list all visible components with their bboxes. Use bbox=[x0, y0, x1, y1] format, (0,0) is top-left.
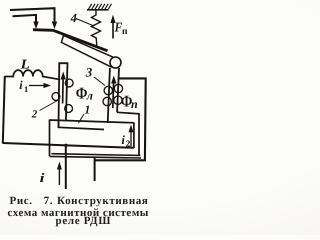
left limb of core bbox=[59, 63, 68, 127]
current arrow i bbox=[58, 168, 60, 185]
right limb exit wire bbox=[117, 112, 139, 156]
svg-text:i: i bbox=[40, 170, 45, 185]
svg-text:2: 2 bbox=[126, 138, 131, 148]
winding loop right limb c bbox=[103, 97, 111, 105]
yoke left end cap bbox=[58, 121, 60, 127]
middle long wire bbox=[3, 143, 134, 148]
svg-text:л: л bbox=[86, 89, 93, 103]
yoke top line / winding exit bbox=[50, 120, 135, 123]
winding exit left vertical bbox=[49, 120, 51, 157]
svg-text:1: 1 bbox=[84, 102, 90, 116]
current arrow i2 bbox=[130, 132, 132, 147]
junction dot rail-middle wire bbox=[64, 144, 67, 147]
label 2 leader bbox=[40, 101, 58, 111]
right limb of core bbox=[108, 68, 119, 123]
svg-text:1: 1 bbox=[24, 84, 28, 94]
pivot circle bbox=[110, 57, 121, 68]
armature bar bbox=[61, 36, 114, 67]
label 1 leader bbox=[79, 114, 85, 123]
svg-text:L: L bbox=[19, 56, 29, 71]
rail wire left bbox=[65, 145, 67, 190]
wire top feed 2 bbox=[13, 15, 37, 23]
spring anchor hatching bbox=[89, 4, 112, 9]
bottom band wire lower bbox=[50, 156, 142, 158]
flux arrow right limb bbox=[112, 82, 115, 108]
arrowhead on wire 1 bbox=[52, 22, 57, 30]
svg-text:3: 3 bbox=[85, 64, 93, 79]
coil L humps bbox=[5, 70, 59, 79]
caption line 2 bbox=[8, 207, 149, 219]
spring anchor bar bbox=[87, 9, 109, 11]
caption line 3 bbox=[56, 215, 112, 227]
winding loop left limb c bbox=[65, 105, 73, 113]
winding loop right limb a bbox=[104, 86, 112, 94]
arrowhead on wire 2 bbox=[33, 22, 38, 30]
svg-text:i: i bbox=[19, 78, 23, 92]
winding loop right limb d bbox=[114, 96, 122, 104]
winding loop right limb b bbox=[114, 84, 122, 92]
current arrow i1 bbox=[29, 85, 45, 87]
contact bar (thick) bbox=[33, 30, 108, 51]
i2 loop right vertical bbox=[133, 123, 135, 149]
winding loop left limb a bbox=[65, 79, 73, 87]
spring bbox=[92, 10, 101, 46]
rail wire right bbox=[94, 157, 96, 182]
wire top feed 1 bbox=[10, 8, 55, 23]
svg-text:i: i bbox=[121, 133, 125, 147]
svg-text:F: F bbox=[114, 20, 123, 35]
winding loop left limb b bbox=[52, 93, 60, 101]
left circuit wire down bbox=[3, 76, 5, 144]
svg-text:п: п bbox=[131, 97, 138, 111]
flux arrow left limb bbox=[62, 78, 65, 104]
yoke bottom line bbox=[58, 127, 104, 129]
caption line 1 bbox=[10, 195, 149, 207]
svg-text:2: 2 bbox=[31, 109, 38, 121]
label 4 leader bbox=[76, 19, 94, 27]
bottom band wire bbox=[52, 154, 141, 156]
svg-text:4: 4 bbox=[70, 11, 77, 25]
svg-text:Ф: Ф bbox=[76, 84, 88, 103]
label 3 leader bbox=[94, 77, 105, 86]
force arrow Fp bbox=[112, 21, 114, 39]
track loop outer bbox=[95, 78, 146, 160]
svg-text:п: п bbox=[122, 27, 128, 37]
